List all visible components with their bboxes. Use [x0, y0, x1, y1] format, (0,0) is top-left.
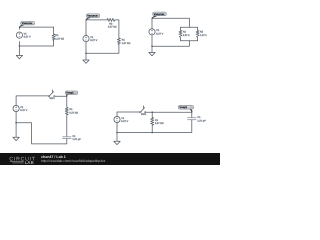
voltage source V1 (circuit 2)	[83, 36, 98, 43]
svg-text:1.27 μF: 1.27 μF	[197, 119, 206, 122]
wire cap bottom dogleg C4	[16, 123, 67, 144]
node name flag (circuit 2)	[86, 14, 100, 20]
svg-text:1.27 kΩ: 1.27 kΩ	[122, 42, 131, 45]
wire resistor-to-cap C4	[66, 115, 68, 137]
wire parallel top bar C3	[181, 26, 198, 28]
node dot C5 source bottom	[116, 132, 118, 134]
wire bottom rail C1	[19, 40, 53, 46]
svg-text:LAB: LAB	[25, 160, 34, 165]
svg-text:5.27 V: 5.27 V	[121, 120, 128, 123]
wire source-to-junction C4	[15, 112, 17, 123]
wire bottom rail C3	[152, 35, 189, 46]
svg-text:1.27 μF: 1.27 μF	[72, 138, 81, 141]
voltage source V1 (circuit 4)	[13, 105, 28, 112]
svg-text:5.27 V: 5.27 V	[20, 109, 27, 112]
svg-text:5.27 kΩ: 5.27 kΩ	[155, 122, 164, 125]
wire top rail C5 left	[117, 112, 140, 116]
switch SW1 (circuit 4)	[48, 90, 55, 100]
node dot C2	[85, 52, 87, 54]
capacitor C1 (circuit 5)	[187, 116, 206, 122]
ground (circuit 5)	[114, 133, 120, 145]
node name flag (circuit 4)	[65, 91, 78, 96]
ground (circuit 1)	[16, 46, 22, 59]
resistor R1 (circuit 5)	[151, 112, 164, 132]
svg-text:5.27 V: 5.27 V	[24, 36, 31, 39]
svg-text:1.27 k: 1.27 k	[200, 34, 207, 37]
wire bottom rail C2	[86, 42, 119, 53]
svg-text:http://circuitlab.com/c/cuw5t8: http://circuitlab.com/c/cuw5t884dqsw6hp4…	[41, 159, 106, 163]
resistor R1 (circuit 3 left)	[179, 27, 190, 40]
node dot C5 resistor top	[151, 111, 153, 113]
ground (circuit 4)	[13, 123, 19, 141]
resistor R1 (circuit 4)	[65, 107, 78, 115]
svg-text:Vcap1: Vcap1	[66, 92, 74, 95]
wire cap to bottom rail C5	[117, 120, 192, 133]
node dot C1	[19, 45, 21, 47]
wire resistor top stub C1	[53, 27, 55, 34]
ground (circuit 2)	[83, 53, 89, 63]
svg-text:SW1: SW1	[141, 113, 147, 116]
node dot C3	[151, 45, 153, 47]
voltage source V1 (circuit 5)	[114, 116, 129, 123]
node name flag (circuit 1)	[20, 21, 35, 27]
svg-text:1.27 kΩ: 1.27 kΩ	[55, 37, 64, 40]
node dot C4	[15, 122, 17, 124]
resistor R1 (circuit 1)	[52, 34, 64, 40]
svg-text:5.27 V: 5.27 V	[90, 39, 97, 42]
node dot C5 resistor bottom	[151, 132, 153, 134]
svg-text:SW1: SW1	[49, 97, 55, 100]
voltage source V1 (circuit 1)	[16, 32, 31, 39]
svg-text:2.27 k: 2.27 k	[183, 34, 190, 37]
voltage source V1 (circuit 3)	[149, 29, 164, 36]
wire top rail C2	[86, 20, 107, 35]
wire top-right segment C2	[115, 20, 119, 38]
svg-text:Vsource: Vsource	[154, 13, 165, 16]
node name flag (circuit 3)	[152, 12, 166, 18]
svg-text:5.27 kΩ: 5.27 kΩ	[69, 112, 78, 115]
resistor R1 (circuit 2, vertical)	[117, 38, 130, 45]
switch SW1 (circuit 5)	[140, 106, 147, 116]
capacitor C1 (circuit 4)	[62, 135, 81, 141]
svg-text:3.27 kΩ: 3.27 kΩ	[108, 26, 117, 29]
svg-text:Vsource: Vsource	[22, 22, 33, 25]
wire top rail C3	[152, 18, 189, 28]
resistor R2 (circuit 3 right)	[196, 27, 207, 40]
wire top rail C4 right	[55, 96, 67, 107]
wire top rail C1	[19, 27, 53, 29]
resistor R2 (circuit 2, horizontal)	[107, 18, 117, 28]
svg-text:Vcap1: Vcap1	[179, 106, 187, 109]
wire top rail C5 right	[146, 112, 192, 117]
node name flag (circuit 5)	[178, 105, 193, 112]
svg-text:5.27 V: 5.27 V	[156, 32, 163, 35]
ground (circuit 3)	[149, 46, 155, 56]
wire parallel bottom bar C3	[181, 40, 198, 42]
svg-text:Vsource: Vsource	[87, 15, 98, 18]
wire top rail C4 left	[16, 96, 48, 105]
